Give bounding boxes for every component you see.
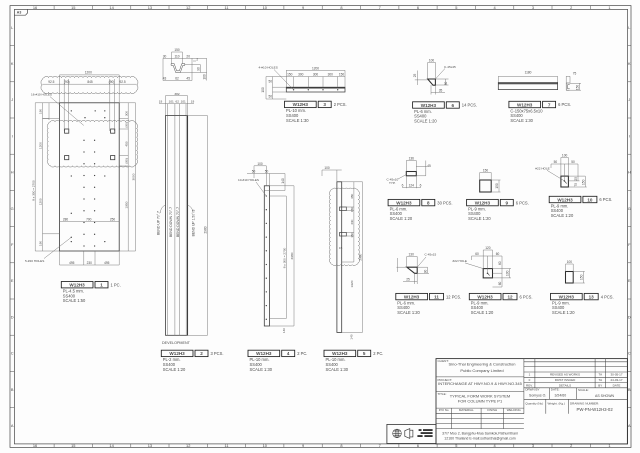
svg-text:62: 62: [175, 100, 179, 104]
svg-text:W12H3: W12H3: [557, 197, 573, 202]
svg-text:SCALE 1:30: SCALE 1:30: [510, 118, 533, 123]
svg-text:D: D: [11, 314, 14, 319]
svg-text:DEVELOPMENT: DEVELOPMENT: [162, 341, 191, 345]
svg-text:6: 6: [417, 5, 419, 10]
part 2 cross-section profile: [171, 64, 185, 73]
svg-text:5: 5: [455, 5, 457, 10]
part 2 developed column plate: [166, 116, 188, 336]
part 7 dim 1180: [498, 76, 557, 82]
svg-text:SCALE 1:20: SCALE 1:20: [552, 310, 575, 315]
part 1 main plate PL-4.5: [60, 103, 120, 251]
svg-text:#22 HOLE: #22 HOLE: [535, 166, 549, 170]
part 2 dim 2980: [188, 116, 208, 336]
part 1 top dimension 1200: [43, 75, 137, 103]
svg-text:1950: 1950: [124, 201, 128, 208]
svg-text:15: 15: [71, 5, 75, 10]
svg-text:6: 6: [420, 184, 422, 188]
part 1 notes: [63, 289, 86, 304]
svg-text:SCALE 1:20: SCALE 1:20: [397, 310, 420, 315]
svg-text:280: 280: [63, 217, 69, 221]
svg-text:50: 50: [571, 160, 575, 164]
svg-text:DATE: DATE: [613, 383, 621, 387]
svg-text:1200: 1200: [85, 71, 92, 75]
svg-text:480: 480: [350, 194, 354, 199]
svg-text:124: 124: [409, 184, 415, 188]
part 9 title box: [467, 199, 514, 205]
part 2 bend lines: [168, 116, 187, 336]
svg-text:1200: 1200: [39, 198, 43, 205]
svg-text:G: G: [628, 206, 631, 211]
svg-text:C-45x15: C-45x15: [425, 253, 437, 257]
svg-text:12: 12: [186, 5, 190, 10]
part 13 dims 100 150: [566, 264, 585, 283]
address lines: [442, 432, 518, 441]
svg-text:14 PCS.: 14 PCS.: [462, 103, 477, 108]
svg-text:MATERIAL: MATERIAL: [459, 408, 474, 412]
svg-text:3: 3: [532, 5, 534, 10]
part 11 gusset plate: [407, 267, 417, 273]
svg-text:11: 11: [434, 294, 439, 299]
svg-text:FOR COLUMN TYPE P1: FOR COLUMN TYPE P1: [458, 398, 503, 403]
part 13 plate: [566, 272, 574, 284]
A3 size box: [14, 9, 27, 15]
svg-text:H: H: [628, 170, 631, 175]
svg-text:150: 150: [287, 73, 293, 77]
svg-text:FIRST ISSUED: FIRST ISSUED: [555, 378, 576, 382]
svg-text:11: 11: [224, 5, 228, 10]
svg-text:16-#10 HOLES: 16-#10 HOLES: [31, 92, 52, 96]
svg-text:45: 45: [186, 77, 190, 81]
part 3 left dims 50 100 50: [266, 77, 286, 99]
svg-text:9: 9: [302, 443, 304, 448]
svg-text:43: 43: [163, 77, 167, 81]
svg-text:150: 150: [350, 232, 354, 237]
svg-text:SCALE 1:30: SCALE 1:30: [286, 118, 309, 123]
svg-text:E: E: [11, 278, 14, 283]
part 9 plate: [480, 180, 492, 192]
svg-text:TA: TA: [598, 372, 602, 376]
svg-text:#22 HOLE: #22 HOLE: [453, 259, 467, 263]
part 6 gusset plate: [428, 79, 436, 85]
svg-text:W12H3: W12H3: [517, 102, 533, 107]
svg-text:G: G: [11, 206, 14, 211]
svg-text:J: J: [628, 97, 630, 102]
revision table rows: [526, 372, 623, 387]
svg-text:7: 7: [548, 102, 551, 107]
svg-text:6 PCS.: 6 PCS.: [558, 102, 571, 107]
svg-text:(90): (90): [124, 122, 128, 128]
svg-text:120: 120: [485, 246, 491, 250]
svg-text:BEND DOWN 70°.7: BEND DOWN 70°.7: [176, 207, 180, 237]
part 2 bend leader arcs: [160, 205, 193, 213]
svg-text:45: 45: [427, 164, 431, 168]
svg-text:W12H3: W12H3: [421, 103, 437, 108]
svg-text:(90): (90): [109, 80, 115, 84]
svg-text:250: 250: [110, 217, 116, 221]
svg-text:90: 90: [424, 270, 428, 274]
part 8 notes: [390, 206, 413, 221]
svg-text:8 x 300 = 2700: 8 x 300 = 2700: [31, 180, 35, 201]
part 1 square holes: [65, 129, 115, 160]
svg-text:8: 8: [340, 5, 342, 10]
svg-text:7: 7: [379, 5, 381, 10]
svg-text:50: 50: [265, 170, 269, 174]
part 3 notes: [286, 108, 309, 123]
svg-text:12160 Thailand E-mail:sothai.t: 12160 Thailand E-mail:sothai.thai@gmail.…: [444, 436, 515, 440]
svg-text:CLIENT:: CLIENT:: [438, 359, 449, 363]
logo globe icon: [393, 429, 402, 438]
svg-text:92.5: 92.5: [48, 80, 54, 84]
svg-text:13: 13: [148, 5, 152, 10]
svg-text:25: 25: [413, 74, 417, 78]
svg-text:300: 300: [313, 73, 319, 77]
part 12 hole with arrow: [487, 272, 489, 274]
svg-text:TITLE:: TITLE:: [438, 392, 447, 396]
svg-text:450: 450: [124, 141, 128, 146]
drawing title: [450, 394, 511, 404]
svg-text:Weight. (Kg.): Weight. (Kg.): [548, 401, 565, 405]
part 6 dims 100 25 50 35: [415, 63, 449, 95]
svg-text:4: 4: [287, 351, 290, 356]
svg-text:Somyos O.: Somyos O.: [529, 393, 546, 397]
svg-text:J: J: [11, 97, 13, 102]
svg-text:FINISH: FINISH: [487, 408, 497, 412]
svg-text:SCALE 1:20: SCALE 1:20: [551, 213, 574, 218]
svg-text:495: 495: [104, 261, 110, 265]
part 3 plate bar: [286, 87, 345, 92]
part 8 plate: [406, 172, 416, 176]
svg-text:C: C: [628, 351, 631, 356]
part 6 notes: [414, 109, 437, 124]
svg-text:2: 2: [200, 351, 203, 356]
part 4 notes: [250, 357, 273, 372]
svg-text:15: 15: [339, 246, 343, 250]
svg-text:3/24/60: 3/24/60: [555, 393, 567, 397]
svg-text:2 PC.: 2 PC.: [373, 351, 383, 356]
svg-text:100: 100: [203, 74, 207, 80]
part 5 right dims: [342, 182, 363, 333]
svg-text:8 x 300 = 2700: 8 x 300 = 2700: [282, 247, 286, 268]
svg-text:150: 150: [350, 207, 354, 212]
svg-text:H: H: [11, 170, 14, 175]
svg-text:5: 5: [363, 351, 366, 356]
part 2 development width dims: [159, 96, 194, 116]
svg-text:W12H3: W12H3: [475, 200, 491, 205]
part 12 notes: [471, 300, 494, 315]
svg-text:SCALE 1:20: SCALE 1:20: [468, 216, 491, 221]
svg-text:495: 495: [69, 261, 75, 265]
svg-text:60: 60: [475, 252, 479, 256]
svg-text:10-#10 HOLES: 10-#10 HOLES: [238, 178, 259, 182]
svg-text:Quantity (No): Quantity (No): [525, 401, 543, 405]
svg-text:50: 50: [444, 82, 448, 86]
svg-text:2 PC.: 2 PC.: [297, 351, 307, 356]
part 7 end section: [566, 83, 570, 90]
svg-text:75: 75: [574, 183, 578, 187]
part 4 title box: [248, 350, 295, 356]
svg-text:B: B: [628, 387, 631, 392]
svg-text:1: 1: [608, 5, 610, 10]
part 1 right dimension column: [119, 103, 135, 251]
svg-text:W12H3: W12H3: [559, 294, 575, 299]
svg-text:SCALE 1:30: SCALE 1:30: [326, 367, 349, 372]
svg-text:P/O No: P/O No: [439, 408, 449, 412]
svg-text:SCALE 1:30: SCALE 1:30: [250, 367, 273, 372]
svg-text:140: 140: [281, 178, 285, 184]
svg-text:6 PCS.: 6 PCS.: [520, 294, 533, 299]
part 1 title box: [61, 282, 108, 288]
svg-text:90: 90: [196, 67, 200, 71]
svg-text:SCALE:: SCALE:: [578, 388, 589, 392]
svg-text:SCALE 1:20: SCALE 1:20: [414, 118, 437, 123]
svg-text:K: K: [11, 61, 14, 66]
svg-text:BY: BY: [598, 383, 602, 387]
svg-text:2 PCS.: 2 PCS.: [334, 102, 347, 107]
svg-text:B: B: [11, 387, 14, 392]
svg-text:DATE:: DATE:: [551, 388, 560, 392]
part 3 title box: [285, 101, 332, 107]
svg-text:2980: 2980: [359, 253, 363, 260]
logo prism icon: [405, 429, 413, 439]
svg-text:60: 60: [496, 252, 500, 256]
svg-text:30: 30: [163, 54, 167, 58]
svg-text:150: 150: [582, 179, 586, 185]
svg-text:12: 12: [186, 443, 190, 448]
svg-text:60: 60: [498, 282, 502, 286]
svg-text:3: 3: [323, 102, 326, 107]
svg-text:DETAILS: DETAILS: [559, 383, 571, 387]
logo company text marks: [417, 429, 432, 437]
svg-text:130: 130: [506, 270, 510, 276]
svg-text:BEND UP 1.50°.3: BEND UP 1.50°.3: [191, 210, 195, 237]
part 2 title box: [161, 350, 208, 356]
svg-text:100: 100: [257, 162, 263, 166]
part 1 left dimension column: [35, 103, 59, 251]
svg-text:I: I: [12, 133, 13, 138]
svg-text:K: K: [628, 61, 631, 66]
svg-text:W12H3: W12H3: [404, 294, 420, 299]
svg-text:75: 75: [573, 72, 577, 76]
part 5 top dim 100: [322, 170, 342, 182]
part 9 dims 150 150: [480, 173, 501, 193]
svg-text:140: 140: [349, 334, 353, 339]
svg-text:2980: 2980: [290, 252, 294, 259]
svg-text:E: E: [628, 278, 631, 283]
part 3 dims 1200 / 150 300 300 300 150: [286, 70, 345, 87]
svg-text:C-45x45: C-45x45: [444, 65, 456, 69]
svg-text:INTERCHANGE AT HWY.NO.9 & HWY.: INTERCHANGE AT HWY.NO.9 & HWY.NO.345: [438, 381, 523, 386]
svg-text:35: 35: [439, 89, 443, 93]
svg-text:50: 50: [252, 170, 256, 174]
svg-text:150: 150: [495, 183, 499, 189]
part 11 dims 130 90 25: [397, 257, 430, 285]
svg-text:50: 50: [269, 80, 273, 84]
svg-text:A: A: [628, 423, 631, 428]
part 2 notes: [163, 357, 186, 372]
revision cloud around top dim row: [41, 76, 138, 93]
part 1 dim row 92.5 (90) 845 (90) 92.5: [48, 80, 126, 84]
svg-text:REVISED AS WORKS: REVISED AS WORKS: [550, 372, 580, 376]
svg-text:SCALE 1:20: SCALE 1:20: [471, 310, 494, 315]
svg-text:2: 2: [570, 5, 572, 10]
svg-text:30-05-17: 30-05-17: [610, 372, 622, 376]
svg-text:16: 16: [33, 5, 37, 10]
svg-text:9: 9: [302, 5, 304, 10]
svg-text:25: 25: [574, 177, 578, 181]
P/O table header: [439, 408, 522, 412]
svg-text:6 PCS.: 6 PCS.: [516, 200, 529, 205]
svg-text:1920: 1920: [350, 280, 354, 287]
svg-text:A: A: [11, 423, 14, 428]
part 5 title box: [324, 350, 371, 356]
svg-text:AS SHOWN: AS SHOWN: [595, 394, 615, 398]
svg-text:150: 150: [174, 48, 180, 52]
svg-text:136: 136: [409, 157, 415, 161]
svg-text:2: 2: [196, 57, 198, 61]
svg-text:60: 60: [498, 261, 502, 265]
svg-text:13: 13: [589, 294, 595, 299]
drwn by / date / scale: [525, 388, 588, 392]
revision cloud around square-hole zone: [47, 121, 137, 167]
svg-text:62: 62: [175, 77, 179, 81]
svg-text:16: 16: [33, 443, 37, 448]
svg-text:150: 150: [483, 169, 489, 173]
svg-text:SCALE 1:20: SCALE 1:20: [163, 367, 186, 372]
part 10 plate: [561, 176, 569, 187]
svg-text:100: 100: [562, 154, 568, 158]
part 4 top dims 100 / 50 50 / 140: [247, 166, 285, 191]
svg-text:C: C: [11, 351, 14, 356]
svg-text:10: 10: [587, 197, 593, 202]
svg-text:W12H3: W12H3: [477, 294, 493, 299]
part 12 plate: [483, 269, 492, 278]
part 1 extension lines into plate: [64, 79, 114, 131]
svg-text:440: 440: [350, 219, 354, 224]
svg-text:30 PCS.: 30 PCS.: [437, 200, 452, 205]
svg-text:50: 50: [554, 160, 558, 164]
svg-text:25: 25: [406, 278, 410, 282]
part 7 title box: [509, 101, 556, 107]
part 8 dims 136 45 6 124 6: [402, 161, 428, 189]
part 5 weld tabs: [340, 207, 347, 236]
part 5 notes: [326, 357, 349, 372]
svg-text:19: 19: [191, 100, 195, 104]
svg-text:3000: 3000: [132, 173, 136, 180]
part 4 bar plate: [264, 186, 269, 326]
part 10 title box: [549, 196, 597, 202]
svg-text:1 PC.: 1 PC.: [111, 282, 121, 287]
svg-text:SCALE 1:20: SCALE 1:20: [390, 216, 413, 221]
svg-text:230: 230: [87, 261, 93, 265]
svg-text:101: 101: [181, 100, 186, 104]
svg-text:19: 19: [159, 100, 163, 104]
svg-text:Public Company Limited: Public Company Limited: [460, 368, 503, 373]
part 12 dims: [472, 250, 512, 287]
part 1 bolt hole dots: [71, 110, 106, 246]
title block internal lines: [436, 359, 627, 429]
svg-text:DRAWING NUMBER:: DRAWING NUMBER:: [570, 401, 599, 405]
svg-text:100: 100: [261, 87, 265, 93]
svg-text:15: 15: [71, 443, 75, 448]
company logo box: [387, 424, 436, 443]
svg-text:20: 20: [186, 54, 190, 58]
svg-text:190: 190: [39, 109, 43, 114]
svg-text:101: 101: [169, 100, 174, 104]
title block cell labels: [438, 359, 453, 396]
svg-text:WELDING: WELDING: [507, 408, 522, 412]
svg-text:150: 150: [339, 73, 345, 77]
part 1 bottom dim 495 230 495: [60, 251, 120, 265]
part 10 hole with arrow: [564, 180, 566, 182]
svg-text:W12H3: W12H3: [396, 200, 412, 205]
part 6 title box: [413, 102, 460, 108]
svg-text:12: 12: [507, 294, 513, 299]
svg-text:150: 150: [580, 274, 584, 280]
svg-text:300: 300: [328, 73, 334, 77]
svg-text:7: 7: [379, 443, 381, 448]
svg-text:1180: 1180: [525, 71, 532, 75]
svg-text:3 PCS.: 3 PCS.: [211, 351, 224, 356]
client name: [449, 361, 516, 373]
part 3 hole dots: [293, 89, 338, 90]
svg-text:382: 382: [174, 92, 179, 96]
part 7 section dims 75 150: [566, 76, 581, 90]
part 11 title box: [396, 293, 444, 299]
part 5 revision cloud: [329, 188, 359, 265]
svg-text:845: 845: [87, 80, 93, 84]
part 7 channel bar: [498, 82, 557, 89]
svg-text:D: D: [628, 314, 631, 319]
svg-text:300: 300: [124, 111, 128, 116]
svg-text:140: 140: [282, 328, 286, 333]
svg-text:13: 13: [148, 443, 152, 448]
svg-text:12 PCS.: 12 PCS.: [446, 294, 461, 299]
svg-text:(90): (90): [124, 158, 128, 164]
svg-text:BEND UP 70°.7: BEND UP 70°.7: [157, 211, 161, 235]
svg-text:W12H3: W12H3: [256, 351, 272, 356]
svg-text:100: 100: [324, 166, 330, 170]
svg-text:37/7 Moo 2, Bangphu-Mua Samkok: 37/7 Moo 2, Bangphu-Mua Samkok,Pathumtha…: [442, 432, 518, 436]
part 2 bend annotations: [157, 207, 196, 237]
svg-text:300: 300: [298, 73, 304, 77]
svg-text:100: 100: [429, 59, 435, 63]
svg-text:8: 8: [340, 443, 342, 448]
svg-text:9: 9: [506, 200, 509, 205]
svg-text:1: 1: [100, 283, 103, 288]
part 5 bar plate: [337, 182, 342, 333]
part 10 notes: [551, 203, 574, 218]
part 2 section dims: [163, 52, 207, 81]
part 13 title box: [551, 293, 599, 299]
title block outline: [436, 359, 627, 444]
svg-text:5-#20 HOLES: 5-#20 HOLES: [25, 259, 44, 263]
svg-text:700: 700: [86, 217, 92, 221]
svg-text:6: 6: [452, 103, 455, 108]
svg-text:2980: 2980: [204, 226, 208, 233]
svg-text:A3: A3: [17, 11, 22, 15]
svg-text:24-03-17: 24-03-17: [610, 378, 622, 382]
svg-text:4-#10 HOLES: 4-#10 HOLES: [259, 65, 278, 69]
svg-text:SCALE 1:50: SCALE 1:50: [63, 298, 86, 303]
svg-text:(90): (90): [64, 80, 70, 84]
svg-text:PW-PN-W12H3-02: PW-PN-W12H3-02: [577, 407, 614, 412]
svg-text:8: 8: [427, 200, 430, 205]
quantity / weight / drawing number: [525, 401, 599, 405]
svg-text:130: 130: [409, 253, 415, 257]
svg-text:6 PCS.: 6 PCS.: [599, 197, 612, 202]
svg-text:150: 150: [576, 85, 580, 91]
svg-text:190: 190: [39, 241, 43, 246]
